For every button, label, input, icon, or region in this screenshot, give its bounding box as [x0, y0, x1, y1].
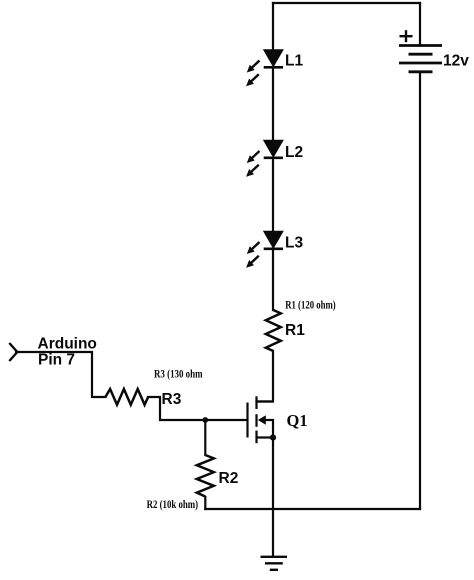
- wire L2 to L3: [272, 158, 274, 232]
- wire R1 to Q1 drain: [257, 351, 274, 402]
- wire top rail: [273, 2, 420, 4]
- LED L3: [246, 231, 283, 268]
- svg-text:L2: L2: [285, 144, 303, 161]
- wire R3 to gate: [148, 397, 247, 420]
- Arduino pin 7 connector chevron: [9, 343, 17, 361]
- LED L2: [246, 140, 283, 177]
- wire L3 to R1: [272, 249, 274, 311]
- wire L1 to L2: [272, 68, 274, 141]
- svg-text:Arduino: Arduino: [38, 336, 97, 353]
- wire Q1 source down: [272, 438, 274, 510]
- resistor R2: [197, 455, 214, 497]
- ground: [261, 557, 288, 570]
- battery V1 12v: [399, 46, 442, 72]
- transistor Q1 (N-MOSFET): [248, 396, 274, 443]
- wire Arduino pin to R3: [16, 352, 106, 397]
- LED L1: [246, 50, 283, 86]
- transistor Q1 body arrow: [258, 415, 266, 425]
- svg-text:L3: L3: [285, 235, 303, 252]
- svg-text:Q1: Q1: [287, 411, 308, 430]
- svg-text:R3: R3: [162, 391, 182, 408]
- wire battery positive lead: [419, 3, 421, 46]
- resistor R1: [266, 310, 281, 351]
- wire R2 bottom: [204, 497, 206, 509]
- svg-text:12v: 12v: [443, 53, 469, 70]
- wire ground stem: [272, 509, 274, 557]
- svg-text:R2: R2: [219, 470, 239, 487]
- svg-text:R1 (120 ohm): R1 (120 ohm): [285, 298, 336, 312]
- wire bottom rail: [205, 508, 420, 510]
- svg-text:R1: R1: [285, 322, 305, 339]
- resistor R3: [106, 389, 149, 405]
- svg-text:L1: L1: [285, 53, 303, 70]
- svg-text:Pin 7: Pin 7: [38, 352, 75, 369]
- wire node to R2: [204, 420, 206, 455]
- junction dot at Q1 source: [270, 434, 276, 440]
- battery plus sign: [400, 30, 413, 42]
- wire LED chain top: [272, 3, 274, 50]
- svg-text:R3 (130 ohm: R3 (130 ohm: [154, 367, 203, 381]
- svg-text:R2 (10k ohm): R2 (10k ohm): [147, 497, 199, 511]
- junction dot at gate node: [202, 417, 208, 423]
- wire battery negative lead: [419, 72, 421, 509]
